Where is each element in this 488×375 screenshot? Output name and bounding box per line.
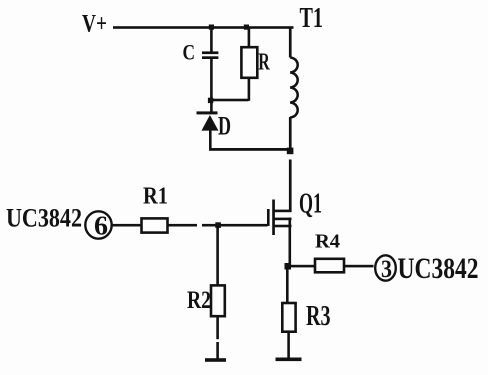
ground (right) [276,358,302,362]
svg-text:R1: R1 [143,184,168,210]
capacitor C [202,51,218,59]
svg-text:6: 6 [94,211,108,241]
diode D [197,111,219,130]
resistor R1 [142,218,168,232]
svg-text:R3: R3 [306,301,331,332]
svg-text:C: C [183,40,196,65]
node gate junction [215,222,221,228]
svg-text:R: R [258,50,270,76]
pin 3 terminal circle [375,255,396,280]
wire C bottom to R bottom connector [209,99,249,102]
resistor R4 [315,259,344,273]
resistor R3 [282,303,295,332]
wire node to R4 [287,265,315,268]
wire pin6 to R1 [113,224,142,227]
svg-text:Q1: Q1 [299,189,322,220]
node junction capacitor-diode-Rbottom [208,98,213,103]
svg-text:UC3842: UC3842 [398,252,479,285]
wire R3 to ground [287,332,290,359]
wire capacitor top lead [210,27,213,52]
wire diode anode down [209,131,212,150]
node junction rail-capacitor [209,25,214,30]
snubber resistor R bottom lead [248,78,251,101]
wire R4 to pin 3 circle [345,265,374,268]
wire gate junction down to R2 [216,225,219,286]
svg-text:T1: T1 [300,3,324,34]
ground (left) [205,358,226,362]
wire top rail V+ to T1 [113,26,294,29]
wire source vertical down to node [289,218,292,267]
node source junction [285,263,292,270]
svg-text:3: 3 [381,256,392,283]
transistor Q1 (N-MOSFET) [267,200,292,236]
wire R2 to ground (with scan gap) [216,316,219,359]
wire node down to R3 [286,267,289,304]
node junction transformer-drain [287,148,294,155]
svg-text:R2: R2 [187,287,211,314]
wire junction to diode cathode [210,101,213,112]
pin 6 terminal circle [85,211,111,238]
transformer T1 primary winding [289,27,298,151]
wire gate junction to MOSFET gate [218,224,268,227]
svg-text:V+: V+ [82,11,107,38]
snubber resistor R top lead [248,27,251,48]
resistor R (snubber) [241,47,257,78]
wire diode to transformer-drain junction [209,148,292,151]
svg-text:D: D [218,112,231,141]
wire capacitor bottom lead [210,59,213,100]
svg-text:UC3842: UC3842 [6,204,82,233]
wire R1 to gate junction (with scan gap) [169,224,219,227]
resistor R2 [211,285,225,316]
node junction rail-snubber-R [244,25,249,30]
wire drain vertical [289,160,292,213]
svg-text:R4: R4 [315,231,340,253]
